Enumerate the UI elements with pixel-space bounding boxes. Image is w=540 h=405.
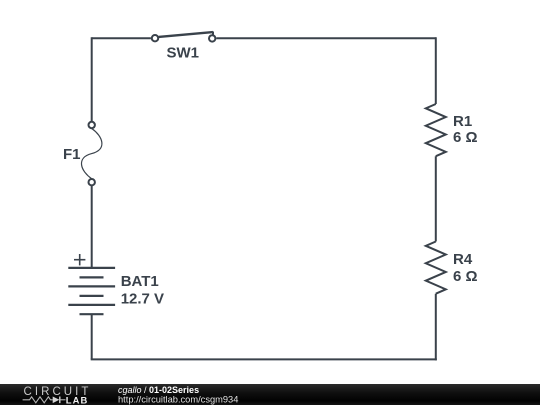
wire left rail upper (corner to fuse) (91, 37, 93, 121)
resistor R1 (426, 104, 446, 156)
svg-text:LAB: LAB (66, 394, 89, 405)
svg-text:http://circuitlab.com/csgm934: http://circuitlab.com/csgm934 (118, 394, 238, 404)
svg-text:cgallo / 01-02Series: cgallo / 01-02Series (118, 385, 199, 395)
wire top rail right segment (216, 37, 435, 39)
svg-text:R4: R4 (453, 251, 473, 268)
wire left rail fuse to battery (91, 186, 93, 268)
wire right rail upper (R1 to top corner) (435, 37, 437, 104)
logo resistor squiggle (23, 397, 53, 403)
wire bottom rail (91, 358, 437, 360)
switch SW1 (152, 32, 216, 42)
fuse F1 (81, 122, 101, 186)
svg-text:F1: F1 (63, 146, 81, 163)
svg-text:BAT1: BAT1 (121, 273, 159, 290)
wire battery to bottom rail (91, 314, 93, 359)
svg-text:R1: R1 (453, 113, 472, 130)
wire top rail left segment (92, 37, 151, 39)
wire right rail middle (R4 to R1) (435, 156, 437, 241)
svg-text:6 Ω: 6 Ω (453, 268, 478, 285)
wire right rail lower (bottom corner to R4) (435, 294, 437, 361)
battery plus sign (74, 254, 85, 265)
battery BAT1 (68, 268, 115, 314)
svg-text:SW1: SW1 (167, 45, 200, 62)
resistor R4 (426, 242, 446, 294)
logo diode (53, 397, 60, 404)
svg-text:6 Ω: 6 Ω (453, 129, 478, 146)
svg-text:12.7 V: 12.7 V (121, 290, 164, 307)
